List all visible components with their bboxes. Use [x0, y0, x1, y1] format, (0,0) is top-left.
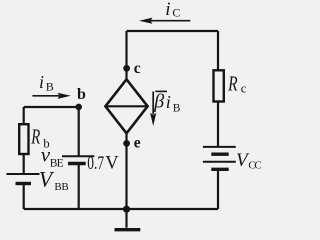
label beta iB with overbar — [155, 90, 167, 92]
battery VCC — [203, 147, 236, 169]
current source U1 (dependent source diamond) — [105, 79, 147, 133]
svg-text:BB: BB — [54, 181, 68, 193]
current arrow beta*iB (collector current direction) — [152, 92, 154, 115]
svg-text:V: V — [105, 154, 119, 174]
svg-text:e: e — [134, 135, 141, 152]
wire left column upper (corner to Vbb top plate) — [23, 107, 25, 174]
wire right column upper (top wire to Rc) — [217, 31, 219, 71]
svg-text:0.7: 0.7 — [87, 154, 104, 174]
svg-text:CC: CC — [248, 160, 261, 172]
svg-text:i: i — [166, 92, 171, 112]
resistor Rb — [19, 124, 28, 154]
svg-text:R: R — [30, 125, 40, 148]
svg-text:B: B — [46, 80, 54, 94]
node junction on bottom rail — [123, 206, 130, 213]
svg-text:R: R — [227, 72, 237, 95]
wire left column lower (Vbb bottom plate to rail) — [23, 184, 25, 209]
svg-text:i: i — [165, 0, 170, 20]
current arrow iB — [32, 95, 59, 97]
wire bottom rail — [24, 208, 218, 210]
wire right column lower (Vcc to bottom rail) — [217, 170, 219, 209]
wire b column lower (0.7V plate to rail) — [78, 164, 80, 210]
wire right column middle (Rc to Vcc) — [217, 101, 219, 146]
battery VBB — [7, 174, 40, 184]
current arrow iC — [150, 20, 190, 22]
node e — [123, 140, 130, 147]
svg-text:c: c — [241, 81, 247, 95]
svg-text:β: β — [153, 91, 164, 113]
svg-text:BE: BE — [50, 158, 64, 170]
wire top collector wire — [127, 30, 219, 32]
wire base wire (left corner to node b) — [24, 106, 79, 108]
svg-text:B: B — [173, 103, 181, 115]
battery 0.7V (vBE) — [62, 156, 94, 163]
node c — [123, 65, 130, 72]
wire center column lower (diamond to ground) — [125, 133, 127, 228]
node b — [75, 104, 82, 111]
wire center column upper (top wire to diamond) — [125, 31, 127, 80]
svg-text:b: b — [77, 86, 86, 103]
resistor Rc — [214, 70, 224, 101]
wire b column upper (node b to 0.7V plate) — [78, 107, 80, 156]
svg-text:C: C — [172, 5, 180, 19]
label Rc — [227, 72, 237, 95]
svg-text:c: c — [134, 60, 141, 77]
ground — [115, 228, 141, 231]
label Rb — [30, 125, 40, 148]
svg-text:i: i — [39, 72, 44, 92]
wire diamond middle chord — [105, 105, 147, 107]
